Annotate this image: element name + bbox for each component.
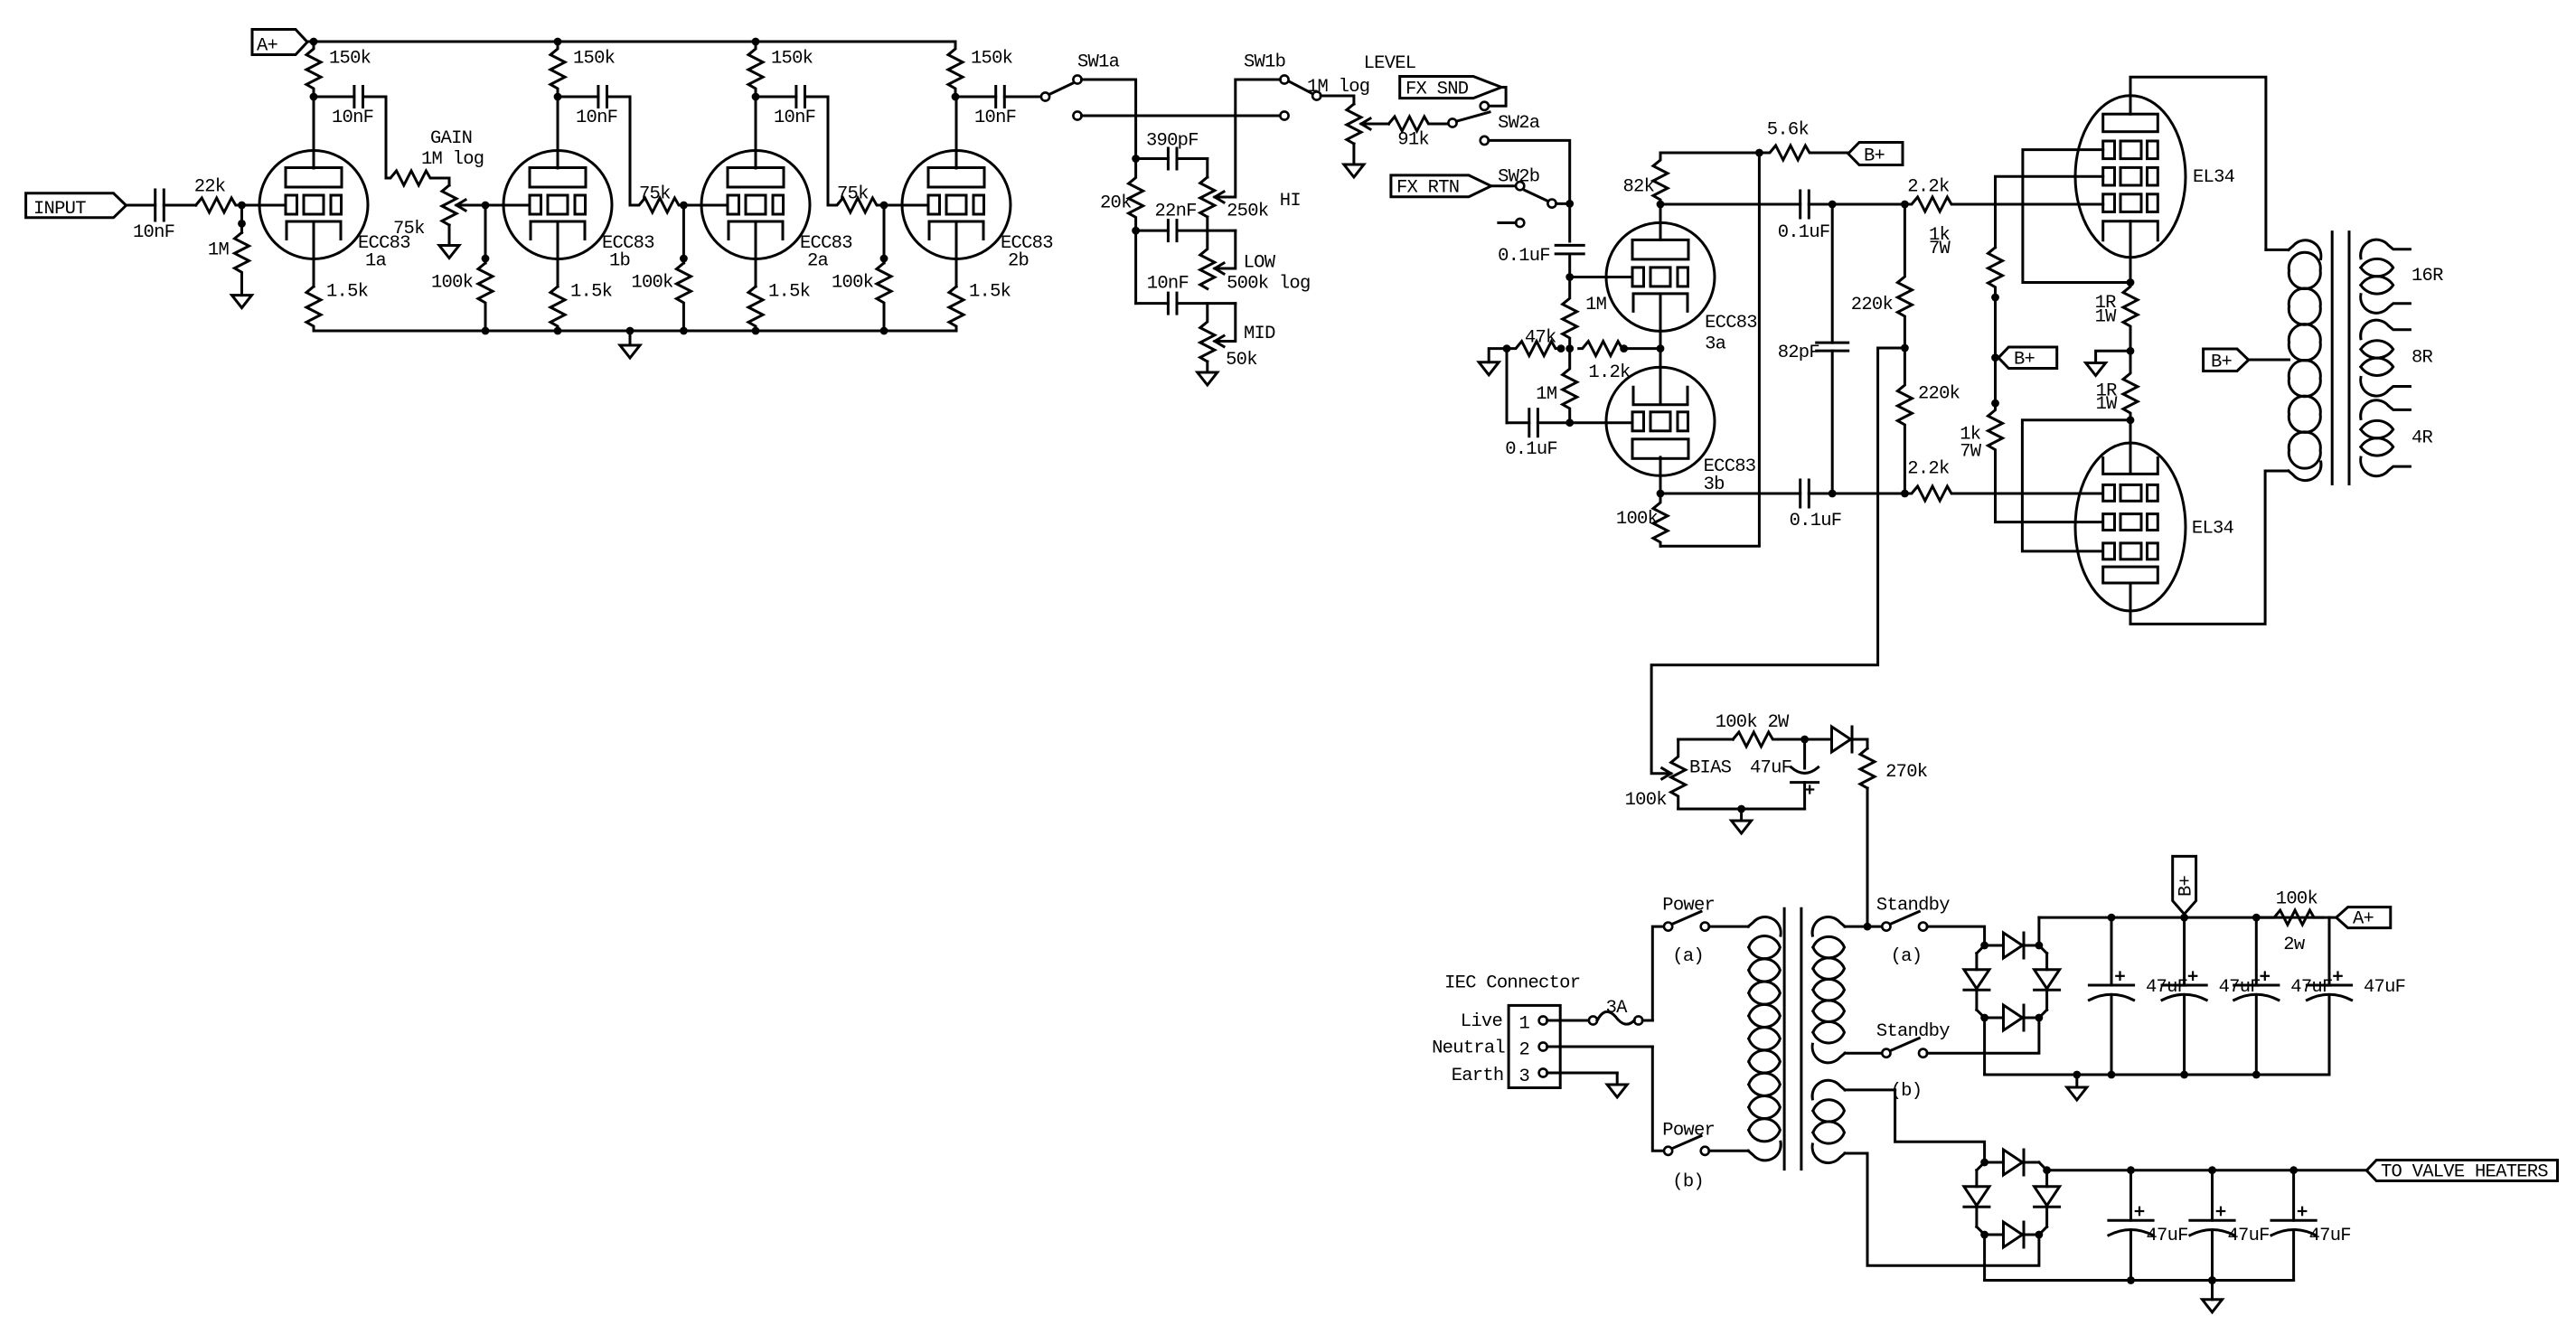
svg-text:150k: 150k <box>329 49 371 70</box>
svg-text:47uF: 47uF <box>2309 1226 2351 1246</box>
svg-text:EL34: EL34 <box>2192 519 2234 540</box>
svg-text:B+: B+ <box>2176 875 2197 897</box>
svg-text:10nF: 10nF <box>974 108 1016 128</box>
svg-text:Standby: Standby <box>1876 896 1950 916</box>
svg-text:82pF: 82pF <box>1778 343 1819 363</box>
svg-text:47k: 47k <box>1525 328 1556 349</box>
svg-text:IEC Connector: IEC Connector <box>1444 973 1580 994</box>
svg-text:390pF: 390pF <box>1146 131 1199 152</box>
svg-text:1M: 1M <box>1585 295 1606 315</box>
svg-text:1.5k: 1.5k <box>768 282 811 303</box>
svg-text:47uF: 47uF <box>1750 758 1791 779</box>
svg-text:1: 1 <box>1519 1014 1530 1035</box>
svg-text:1.2k: 1.2k <box>1588 362 1631 383</box>
svg-text:22k: 22k <box>194 177 226 198</box>
svg-text:100k 2W: 100k 2W <box>1716 712 1790 733</box>
svg-text:A+: A+ <box>2353 909 2374 930</box>
svg-text:270k: 270k <box>1885 762 1928 783</box>
svg-text:(a): (a) <box>1672 946 1704 967</box>
svg-text:FX SND: FX SND <box>1406 80 1469 100</box>
svg-text:FX RTN: FX RTN <box>1396 178 1459 199</box>
svg-text:10nF: 10nF <box>774 108 815 128</box>
svg-text:LOW: LOW <box>1244 253 1276 274</box>
svg-text:500k log: 500k log <box>1227 274 1310 295</box>
svg-text:2.2k: 2.2k <box>1907 459 1950 480</box>
svg-text:Power: Power <box>1662 896 1715 916</box>
svg-text:1b: 1b <box>609 251 630 272</box>
svg-text:50k: 50k <box>1226 350 1257 371</box>
svg-text:0.1uF: 0.1uF <box>1778 222 1830 243</box>
svg-text:250k: 250k <box>1227 202 1269 222</box>
svg-text:220k: 220k <box>1851 295 1894 315</box>
svg-text:0.1uF: 0.1uF <box>1498 246 1550 267</box>
svg-text:8R: 8R <box>2411 348 2433 369</box>
svg-text:GAIN: GAIN <box>430 128 472 149</box>
svg-text:TO VALVE HEATERS: TO VALVE HEATERS <box>2381 1162 2548 1183</box>
svg-text:47uF: 47uF <box>2219 977 2261 998</box>
svg-text:Power: Power <box>1662 1121 1715 1142</box>
svg-text:Earth: Earth <box>1452 1066 1504 1086</box>
svg-text:10nF: 10nF <box>133 222 174 243</box>
svg-text:1W: 1W <box>2095 307 2118 328</box>
svg-text:1.5k: 1.5k <box>570 282 613 303</box>
svg-text:INPUT: INPUT <box>33 199 86 220</box>
svg-text:(b): (b) <box>1672 1172 1704 1193</box>
svg-text:Live: Live <box>1461 1011 1502 1032</box>
svg-text:91k: 91k <box>1397 130 1429 151</box>
svg-text:22nF: 22nF <box>1155 202 1197 222</box>
svg-text:100k: 100k <box>2276 889 2318 910</box>
svg-text:SW2a: SW2a <box>1498 113 1540 134</box>
svg-text:150k: 150k <box>573 49 616 70</box>
svg-text:1M log: 1M log <box>1307 77 1369 98</box>
svg-text:LEVEL: LEVEL <box>1364 53 1416 74</box>
svg-text:2w: 2w <box>2283 935 2306 955</box>
svg-text:5.6k: 5.6k <box>1767 120 1810 141</box>
svg-text:1M: 1M <box>1536 384 1556 405</box>
svg-text:B+: B+ <box>1864 146 1885 167</box>
svg-text:220k: 220k <box>1918 384 1960 405</box>
svg-text:3b: 3b <box>1704 475 1725 495</box>
svg-text:150k: 150k <box>971 49 1013 70</box>
svg-text:SW1b: SW1b <box>1244 52 1285 73</box>
svg-text:1M log: 1M log <box>421 149 484 170</box>
svg-text:47uF: 47uF <box>2147 1226 2188 1246</box>
svg-text:2: 2 <box>1519 1040 1530 1061</box>
svg-text:47uF: 47uF <box>2228 1226 2270 1246</box>
svg-text:20k: 20k <box>1100 193 1132 214</box>
svg-text:1W: 1W <box>2096 394 2119 415</box>
svg-text:75k: 75k <box>639 184 671 205</box>
svg-text:75k: 75k <box>837 184 869 205</box>
svg-text:4R: 4R <box>2411 428 2433 449</box>
svg-text:10nF: 10nF <box>332 108 373 128</box>
svg-text:100k: 100k <box>832 273 874 294</box>
svg-text:2a: 2a <box>807 251 829 272</box>
svg-text:ECC83: ECC83 <box>1705 313 1757 334</box>
svg-text:B+: B+ <box>2014 350 2035 371</box>
svg-text:82k: 82k <box>1623 177 1655 198</box>
svg-text:7W: 7W <box>1960 442 1982 463</box>
svg-text:10nF: 10nF <box>576 108 617 128</box>
svg-text:1.5k: 1.5k <box>326 282 369 303</box>
svg-text:100k: 100k <box>431 273 474 294</box>
svg-text:47uF: 47uF <box>2290 977 2332 998</box>
svg-text:1M: 1M <box>208 240 229 261</box>
svg-text:2.2k: 2.2k <box>1907 177 1950 198</box>
svg-text:SW1a: SW1a <box>1077 52 1120 73</box>
svg-text:100k: 100k <box>1616 509 1659 530</box>
svg-text:2b: 2b <box>1008 251 1029 272</box>
svg-text:100k: 100k <box>631 273 673 294</box>
svg-text:0.1uF: 0.1uF <box>1505 439 1557 460</box>
svg-text:3A: 3A <box>1606 998 1629 1019</box>
svg-text:7W: 7W <box>1929 239 1951 259</box>
svg-text:(b): (b) <box>1891 1081 1923 1102</box>
svg-text:BIAS: BIAS <box>1689 758 1732 779</box>
svg-text:1.5k: 1.5k <box>969 282 1011 303</box>
svg-text:B+: B+ <box>2211 352 2233 373</box>
svg-text:3: 3 <box>1519 1067 1530 1087</box>
svg-text:16R: 16R <box>2411 266 2443 287</box>
svg-text:47uF: 47uF <box>2364 977 2405 998</box>
svg-text:3a: 3a <box>1705 334 1726 355</box>
svg-text:0.1uF: 0.1uF <box>1790 511 1842 531</box>
svg-text:100k: 100k <box>1625 790 1668 811</box>
svg-text:SW2b: SW2b <box>1498 167 1539 188</box>
svg-text:1a: 1a <box>365 251 387 272</box>
svg-text:150k: 150k <box>771 49 813 70</box>
svg-text:(a): (a) <box>1891 946 1923 967</box>
svg-text:10nF: 10nF <box>1147 274 1189 295</box>
svg-text:Standby: Standby <box>1876 1021 1950 1042</box>
svg-text:HI: HI <box>1280 191 1301 211</box>
svg-text:Neutral: Neutral <box>1432 1039 1505 1059</box>
svg-text:MID: MID <box>1244 324 1275 344</box>
svg-text:EL34: EL34 <box>2193 167 2235 188</box>
svg-text:A+: A+ <box>257 36 278 57</box>
svg-text:47uF: 47uF <box>2146 977 2187 998</box>
